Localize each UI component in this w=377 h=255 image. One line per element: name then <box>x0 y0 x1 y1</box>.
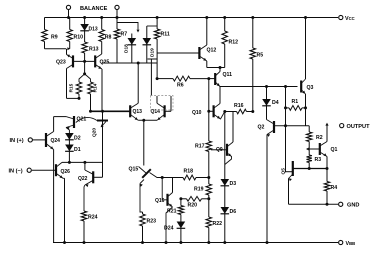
svg-text:Q26: Q26 <box>61 169 71 175</box>
svg-text:Q5: Q5 <box>281 168 287 175</box>
svg-text:R3: R3 <box>315 157 322 163</box>
svg-text:R16: R16 <box>234 103 244 109</box>
svg-text:D6: D6 <box>230 209 237 215</box>
svg-text:Q13: Q13 <box>133 109 143 115</box>
svg-text:D3: D3 <box>230 181 237 187</box>
svg-text:R11: R11 <box>161 32 170 38</box>
svg-text:R19: R19 <box>194 187 204 193</box>
svg-text:R24: R24 <box>88 215 98 221</box>
svg-text:R6: R6 <box>177 83 184 89</box>
svg-text:Q16: Q16 <box>155 198 165 204</box>
svg-text:R8: R8 <box>105 35 112 41</box>
svg-text:R4: R4 <box>331 185 338 191</box>
svg-text:Q23: Q23 <box>56 60 66 66</box>
svg-text:Q24: Q24 <box>51 138 61 144</box>
svg-text:Q2: Q2 <box>258 125 265 131</box>
svg-text:R18: R18 <box>184 169 194 175</box>
svg-text:R22: R22 <box>213 221 223 227</box>
svg-text:Q25: Q25 <box>100 60 110 66</box>
svg-text:D2: D2 <box>74 136 81 142</box>
svg-text:Q11: Q11 <box>223 72 233 78</box>
svg-text:D4: D4 <box>272 100 279 106</box>
svg-text:R9: R9 <box>51 35 58 41</box>
svg-text:D1: D1 <box>74 147 81 153</box>
svg-text:D13: D13 <box>89 27 98 33</box>
svg-text:Q3: Q3 <box>307 85 314 91</box>
svg-text:D19: D19 <box>150 48 156 57</box>
svg-text:R15: R15 <box>69 83 75 92</box>
svg-text:Q22: Q22 <box>78 176 88 182</box>
svg-text:D18: D18 <box>124 44 130 53</box>
svg-text:Q10: Q10 <box>192 110 202 116</box>
svg-text:BALANCE: BALANCE <box>80 6 108 12</box>
svg-text:R20: R20 <box>188 203 198 209</box>
svg-text:R13: R13 <box>89 47 99 53</box>
svg-text:R17: R17 <box>195 144 205 150</box>
svg-text:Q20: Q20 <box>92 128 98 137</box>
svg-text:Q15: Q15 <box>129 167 139 173</box>
svg-text:OUTPUT: OUTPUT <box>347 124 371 130</box>
svg-text:R2: R2 <box>316 135 323 141</box>
svg-text:IN (−): IN (−) <box>9 169 23 175</box>
svg-text:R21: R21 <box>167 209 177 215</box>
svg-text:IN (+): IN (+) <box>10 138 24 144</box>
svg-text:D24: D24 <box>164 226 174 232</box>
svg-text:R7: R7 <box>121 32 128 38</box>
svg-text:Q1: Q1 <box>331 147 338 153</box>
svg-text:R1: R1 <box>292 99 299 105</box>
svg-text:R10: R10 <box>74 35 84 41</box>
svg-text:R5: R5 <box>257 53 264 59</box>
svg-text:R14: R14 <box>93 83 99 92</box>
svg-text:R12: R12 <box>229 40 239 46</box>
svg-text:Q12: Q12 <box>207 48 217 54</box>
svg-text:R23: R23 <box>147 219 157 225</box>
svg-text:GND: GND <box>347 203 359 209</box>
